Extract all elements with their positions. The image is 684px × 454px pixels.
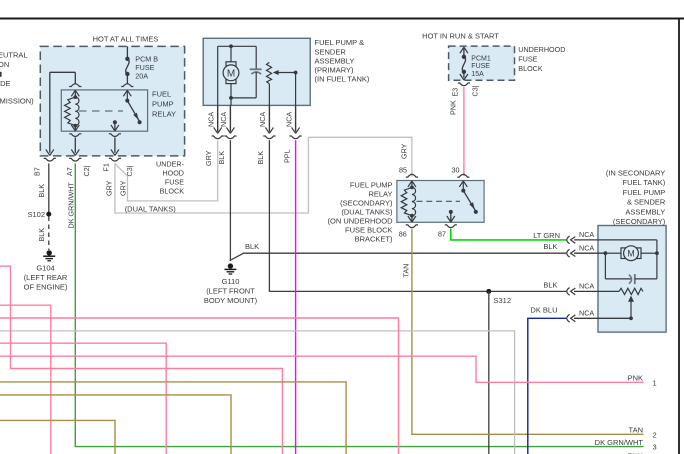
svg-text:NCA: NCA xyxy=(258,112,267,127)
svg-text:F1: F1 xyxy=(102,163,111,171)
svg-text:DK GRN/WHT: DK GRN/WHT xyxy=(595,438,644,447)
fuse PCM B 20A xyxy=(125,46,129,84)
terminal labels B7 A7 C2 F1 C3 xyxy=(33,163,135,176)
underhood fuse block (PCM1, dashed box) HOT IN RUN & START xyxy=(422,32,565,80)
svg-text:NCA: NCA xyxy=(219,112,228,127)
relay switch contacts 30/87 (primary) xyxy=(113,99,142,131)
terminal B7 exit (arrow + cup at dashed box bottom) xyxy=(44,149,56,161)
svg-text:30: 30 xyxy=(452,166,460,175)
node: clipped left-margin text (PARK/NEUTRAL POSITION ... TRANSMISSION) xyxy=(0,51,28,70)
svg-text:HOOD: HOOD xyxy=(162,168,184,177)
svg-text:PCM1: PCM1 xyxy=(471,55,491,62)
svg-text:BRACKET): BRACKET) xyxy=(355,235,393,244)
connector NCA LT GRN (secondary tank feed) xyxy=(533,230,598,244)
wire: switch contact 87 to F1 exit xyxy=(109,125,121,161)
svg-text:C2|: C2| xyxy=(82,165,91,176)
svg-text:DK GRN/WHT: DK GRN/WHT xyxy=(67,182,76,229)
svg-text:FUEL: FUEL xyxy=(152,90,171,99)
svg-text:S102: S102 xyxy=(27,210,45,219)
svg-text:BLK: BLK xyxy=(543,281,557,290)
wire PNK P5 from left edge to end 1 xyxy=(0,356,657,387)
svg-text:G110: G110 xyxy=(222,277,240,286)
pin NCA BLK motor-negative (primary tank) connector xyxy=(217,105,237,164)
svg-text:& SENDER: & SENDER xyxy=(627,198,666,207)
svg-text:BLOCK: BLOCK xyxy=(160,186,185,195)
svg-text:LT GRN: LT GRN xyxy=(533,231,560,240)
motor M2 (secondary fuel pump) xyxy=(621,246,641,261)
svg-text:FUSE: FUSE xyxy=(518,55,537,64)
svg-text:(ON UNDERHOOD: (ON UNDERHOOD xyxy=(328,217,394,226)
wire: secondary pump feed rail xyxy=(598,240,659,255)
svg-text:(LEFT FRONT: (LEFT FRONT xyxy=(206,287,255,296)
relay K2 FUEL PUMP RELAY (SECONDARY) box xyxy=(328,181,485,244)
wire DK GRN/WHT: A7 down and right to end 3 xyxy=(75,163,643,446)
svg-text:M: M xyxy=(227,68,235,79)
svg-text:BLK: BLK xyxy=(543,242,557,251)
svg-text:NCA: NCA xyxy=(579,243,594,252)
svg-text:DK BLU: DK BLU xyxy=(530,306,557,315)
svg-text:3: 3 xyxy=(653,443,657,452)
relay K2 switch 30/87 xyxy=(449,189,478,222)
fuel pump &amp; sender assembly (primary) box xyxy=(203,38,370,105)
wire PPL primary sender signal to bottom xyxy=(295,140,297,454)
svg-text:EUTRAL: EUTRAL xyxy=(0,51,28,60)
svg-text:FUSE: FUSE xyxy=(165,177,184,186)
svg-text:TAN: TAN xyxy=(401,264,410,278)
svg-text:PUMP: PUMP xyxy=(152,100,174,109)
wire BLK B7 to splice S102 xyxy=(48,163,50,214)
pin NCA GRY (primary tank) connector xyxy=(204,105,224,166)
ground G110 (LEFT FRONT BODY MOUNT) xyxy=(204,263,258,305)
svg-text:G104: G104 xyxy=(36,264,54,273)
svg-text:(PRIMARY): (PRIMARY) xyxy=(315,66,355,75)
svg-text:FUEL PUMP: FUEL PUMP xyxy=(350,181,393,190)
svg-text:HOT AT ALL TIMES: HOT AT ALL TIMES xyxy=(93,35,159,44)
wire TAN relay 86 down and right to end 2 xyxy=(401,229,656,440)
svg-text:B7: B7 xyxy=(33,167,42,176)
svg-text:GRY: GRY xyxy=(119,180,128,196)
svg-text:86: 86 xyxy=(399,229,407,238)
svg-text:FUEL PUMP: FUEL PUMP xyxy=(623,188,666,197)
wire PNK P4 from left edge xyxy=(0,343,166,454)
svg-text:BLK: BLK xyxy=(37,228,46,242)
wire GRY F1 to primary tank GRY pin xyxy=(115,140,218,201)
svg-text:C3|: C3| xyxy=(471,85,480,96)
svg-text:S312: S312 xyxy=(494,296,512,305)
svg-text:NCA: NCA xyxy=(284,112,293,127)
wire BLK dashed S102 to G104 xyxy=(48,217,50,251)
svg-text:(DUAL TANKS): (DUAL TANKS) xyxy=(125,204,177,213)
svg-text:GRY: GRY xyxy=(400,143,409,159)
svg-text:NCA: NCA xyxy=(579,230,594,239)
wire PNK fuse PCM1 to secondary relay pin 30 xyxy=(449,87,464,176)
svg-text:FUEL TANK): FUEL TANK) xyxy=(623,178,666,187)
wire TAN T2 from left edge xyxy=(0,395,231,454)
svg-text:PNK: PNK xyxy=(628,373,643,382)
wire: primary pump motor bottom rail xyxy=(229,84,256,106)
svg-text:SENDER: SENDER xyxy=(315,47,347,56)
splice S102 xyxy=(27,210,51,219)
wire TAN T1 from left edge xyxy=(0,382,346,454)
ground G104 (LEFT REAR OF ENGINE) xyxy=(24,250,68,291)
svg-text:NCA: NCA xyxy=(207,112,216,127)
pin NCA BLK sender-ground (primary tank) connector xyxy=(256,105,276,164)
svg-text:(IN FUEL TANK): (IN FUEL TANK) xyxy=(315,75,370,84)
pin 86 exit connector (TAN) xyxy=(399,216,418,239)
svg-text:NCA: NCA xyxy=(579,308,594,317)
pin 87 exit connector (LT GRN) xyxy=(438,216,457,238)
wire BLK primary pump to ground G110 xyxy=(229,140,231,261)
wire TAN T3 from left edge xyxy=(0,420,115,454)
svg-text:(MISSION): (MISSION) xyxy=(0,97,34,106)
svg-text:A7: A7 xyxy=(65,167,74,176)
wire GRY long horizontal to bottom right xyxy=(0,331,515,454)
wire BLK G110 tap to secondary pump motor-negative xyxy=(230,242,566,260)
wire PNK P1 from left edge xyxy=(0,266,282,454)
svg-text:85: 85 xyxy=(399,166,407,175)
svg-text:GRY: GRY xyxy=(105,180,114,196)
relay K2 coil xyxy=(401,186,415,218)
svg-text:GRY: GRY xyxy=(204,150,213,166)
svg-text:BLOCK: BLOCK xyxy=(518,64,543,73)
wire GRY F1/C3 to secondary relay pin 85 (DUAL TANKS) xyxy=(115,137,412,213)
resistor R1 fuel level sender (primary, variable) xyxy=(267,62,298,105)
svg-text:ASSEMBLY: ASSEMBLY xyxy=(625,207,665,216)
terminal labels E3 C3 xyxy=(451,85,480,96)
svg-text:(LEFT REAR: (LEFT REAR xyxy=(24,273,68,282)
svg-text:(IN SECONDARY: (IN SECONDARY xyxy=(606,168,665,177)
fuse PCM1 15A xyxy=(458,47,470,85)
wire: coil-top jumper to B7 ground leg xyxy=(50,72,76,153)
svg-text:15A: 15A xyxy=(471,71,484,78)
svg-text:UNDER-: UNDER- xyxy=(156,159,185,168)
wire color labels BLK / DK GRN/WHT / GRY GRY xyxy=(37,180,128,241)
svg-text:RELAY: RELAY xyxy=(152,110,176,119)
svg-text:RELAY: RELAY xyxy=(368,190,392,199)
svg-text:BLK: BLK xyxy=(245,242,259,251)
svg-text:ON: ON xyxy=(0,60,9,69)
svg-text:NCA: NCA xyxy=(579,282,594,291)
relay K1 FUEL PUMP RELAY (primary) box xyxy=(61,90,176,132)
connector NCA DK BLU (secondary sender signal) xyxy=(530,306,631,323)
underhood fuse block (primary, dashed box) HOT AT ALL TIMES xyxy=(40,35,184,196)
connector NCA BLK (secondary sender ground) xyxy=(567,282,619,296)
svg-text:TAN: TAN xyxy=(629,425,643,434)
wire PNK P3 from left edge xyxy=(0,318,399,454)
wire: coil bottom to A7 exit xyxy=(69,125,81,161)
svg-text:1: 1 xyxy=(653,378,657,387)
motor M1 (primary fuel pump) xyxy=(223,62,239,84)
pin 85 entry connector (GRY) xyxy=(399,143,418,187)
svg-text:FUSE BLOCK: FUSE BLOCK xyxy=(345,226,393,235)
capacitor C2 (secondary, noise suppression) xyxy=(605,253,657,284)
svg-text:BLK: BLK xyxy=(256,151,265,165)
svg-text:HOT IN RUN & START: HOT IN RUN & START xyxy=(422,32,499,41)
splice S312 xyxy=(486,289,511,305)
svg-text:E3: E3 xyxy=(451,88,460,97)
svg-text:(SECONDARY): (SECONDARY) xyxy=(613,217,666,226)
connector NCA BLK (secondary motor negative) xyxy=(567,243,606,257)
pin NCA PPL sender-signal (primary tank) connector xyxy=(282,105,301,163)
wire: primary pump motor top rail xyxy=(218,44,257,105)
svg-text:FUEL PUMP &: FUEL PUMP & xyxy=(315,38,365,47)
resistor R2 fuel level sender (secondary, variable) xyxy=(619,288,643,320)
svg-text:PPL: PPL xyxy=(282,149,291,163)
svg-text:ASSEMBLY: ASSEMBLY xyxy=(315,56,355,65)
svg-text:2: 2 xyxy=(653,431,657,440)
svg-text:(SECONDARY): (SECONDARY) xyxy=(340,199,393,208)
svg-text:PNK: PNK xyxy=(449,100,458,115)
svg-text:(DUAL TANKS): (DUAL TANKS) xyxy=(341,208,393,217)
svg-text:BODY MOUNT): BODY MOUNT) xyxy=(204,296,258,305)
pin 86 coil-top entry connector at relay top xyxy=(69,84,81,97)
wire DK BLU secondary sender to bottom xyxy=(528,318,566,454)
wire LT GRN relay 87 to secondary tank xyxy=(451,229,566,240)
fuel pump & sender assembly (secondary) box xyxy=(598,168,666,332)
svg-text:20A: 20A xyxy=(135,71,148,80)
svg-text:BLK: BLK xyxy=(217,151,226,165)
pin 30 switch entry connector at relay top xyxy=(121,84,133,101)
relay coil (primary) xyxy=(65,95,79,127)
svg-text:M: M xyxy=(627,248,634,258)
svg-text:OF ENGINE): OF ENGINE) xyxy=(24,283,68,292)
pin 30 entry connector (PNK) xyxy=(452,166,470,191)
wire PNK P2 from left edge xyxy=(0,305,51,454)
svg-text:UNDERHOOD: UNDERHOOD xyxy=(518,45,565,54)
wire BLK primary sender ground through S312 xyxy=(269,140,566,291)
capacitor C1 (primary, noise suppression) xyxy=(250,69,262,98)
svg-text:87: 87 xyxy=(438,229,446,238)
svg-text:FUSE: FUSE xyxy=(471,63,490,70)
wire BLK S312 drop to bottom xyxy=(488,291,490,454)
svg-text:BLK: BLK xyxy=(37,184,46,198)
svg-text:IDE: IDE xyxy=(0,79,11,88)
